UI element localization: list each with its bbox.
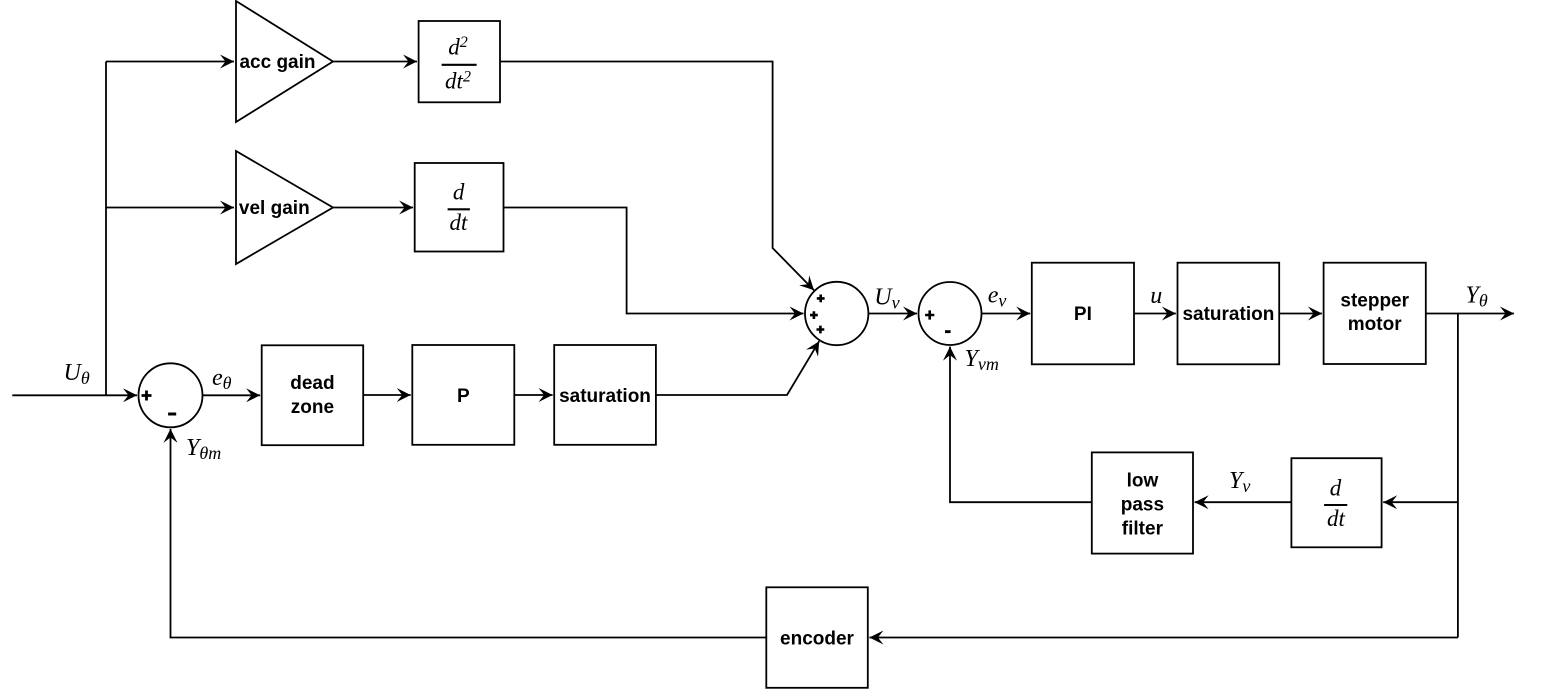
svg-text:dt: dt: [450, 210, 469, 235]
wire d/dt 2 to low pass filter: [1195, 501, 1292, 503]
wire feedback branch to d/dt 2: [1383, 501, 1458, 503]
svg-text:acc gain: acc gain: [239, 52, 315, 73]
wire saturation 2 to stepper motor: [1279, 313, 1322, 315]
fraction d/dt 2: [1324, 475, 1347, 531]
gain block vel gain triangle: [236, 151, 333, 264]
svg-text:vel gain: vel gain: [239, 198, 310, 219]
wire summer S3 to summer S4: [868, 313, 917, 315]
svg-text:Yvm: Yvm: [965, 346, 999, 374]
svg-text:filter: filter: [1122, 518, 1164, 539]
svg-text:Uv: Uv: [874, 285, 899, 313]
summer S3 plus sign bottom: [817, 326, 825, 334]
summer S1 plus sign: [142, 391, 152, 401]
wire acc gain to d2/dt2 block: [334, 61, 418, 63]
svg-text:low: low: [1127, 471, 1159, 492]
wire stepper motor output Y_theta: [1426, 313, 1514, 315]
wire d2/dt2 block to summer S3: [500, 62, 814, 291]
svg-text:P: P: [457, 386, 470, 407]
svg-text:Uθ: Uθ: [64, 360, 90, 388]
wire input U_theta to summer S1: [12, 394, 137, 396]
block saturation 2: [1178, 263, 1280, 365]
summer S3 plus sign middle: [810, 311, 818, 319]
wire branch vertical from input node up: [105, 62, 107, 396]
wire d/dt block to summer S3: [504, 208, 804, 314]
svg-text:ev: ev: [988, 283, 1007, 311]
wire feedback vertical from output node: [1457, 314, 1459, 638]
svg-text:d: d: [453, 179, 465, 204]
wire low pass filter to summer S4: [950, 347, 1092, 503]
summer S1: [139, 363, 203, 427]
wire branch to acc gain: [106, 61, 234, 63]
summer S3: [805, 282, 868, 345]
svg-text:motor: motor: [1348, 314, 1402, 335]
svg-text:Yθm: Yθm: [186, 435, 221, 463]
gain block acc gain triangle: [236, 1, 333, 122]
svg-text:stepper: stepper: [1340, 291, 1409, 312]
wire summer S4 to PI: [982, 313, 1031, 315]
block encoder: [766, 587, 868, 688]
block PI: [1032, 263, 1134, 365]
summer S4 minus sign: [945, 330, 951, 333]
fraction d2/dt2: [442, 34, 477, 94]
wire PI to saturation 2: [1134, 313, 1176, 315]
block saturation: [554, 345, 656, 445]
svg-text:dead: dead: [290, 373, 334, 394]
svg-text:dt: dt: [1327, 506, 1346, 531]
svg-text:zone: zone: [291, 397, 334, 418]
wire encoder to summer S1: [171, 429, 767, 638]
wire summer S1 to dead zone: [203, 394, 261, 396]
block low pass filter: [1092, 452, 1193, 553]
wire vel gain to d/dt block: [334, 207, 414, 209]
summer S4: [919, 282, 982, 345]
block P: [412, 345, 514, 445]
wire saturation to summer S3: [656, 341, 819, 395]
block d/dt 2: [1291, 458, 1381, 547]
svg-text:Yθ: Yθ: [1466, 283, 1488, 311]
summer S3 plus sign top: [817, 295, 825, 303]
svg-text:u: u: [1150, 283, 1162, 309]
block d2/dt2: [419, 21, 500, 102]
wire dead zone to P: [363, 394, 411, 396]
wire P to saturation: [514, 394, 552, 396]
wire bottom feedback to encoder: [869, 637, 1458, 639]
block dead zone: [262, 345, 364, 445]
svg-text:encoder: encoder: [780, 628, 855, 649]
summer S4 plus sign: [925, 310, 934, 319]
svg-text:saturation: saturation: [559, 386, 651, 407]
fraction d/dt: [448, 179, 470, 235]
svg-text:Yv: Yv: [1229, 468, 1250, 496]
svg-text:saturation: saturation: [1182, 304, 1274, 325]
block stepper motor: [1324, 263, 1426, 364]
svg-text:d: d: [1330, 475, 1342, 500]
wire branch to vel gain: [106, 207, 234, 209]
svg-text:pass: pass: [1121, 495, 1164, 516]
summer S1 minus sign: [168, 413, 176, 416]
svg-text:PI: PI: [1074, 304, 1092, 325]
svg-text:eθ: eθ: [212, 365, 232, 393]
block d/dt: [415, 163, 504, 252]
